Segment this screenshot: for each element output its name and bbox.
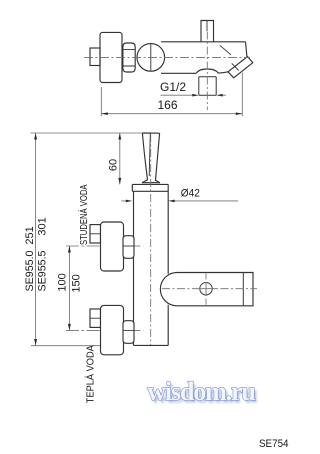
svg-text:100: 100 <box>57 273 69 291</box>
svg-text:SE955.0: SE955.0 <box>24 251 36 292</box>
svg-text:Ø42: Ø42 <box>181 187 200 199</box>
svg-text:SE955.5: SE955.5 <box>36 251 48 292</box>
svg-text:G1/2: G1/2 <box>160 80 186 94</box>
svg-text:301: 301 <box>36 217 48 235</box>
svg-text:251: 251 <box>24 226 36 244</box>
svg-text:150: 150 <box>71 274 83 292</box>
svg-text:STUDENÁ VODA: STUDENÁ VODA <box>77 185 90 246</box>
svg-text:wisdom.ru: wisdom.ru <box>147 377 255 406</box>
svg-text:SE754: SE754 <box>259 438 289 450</box>
svg-text:166: 166 <box>158 98 178 112</box>
svg-text:TEPLÁ VODA: TEPLÁ VODA <box>83 345 96 403</box>
svg-text:60: 60 <box>108 159 120 171</box>
